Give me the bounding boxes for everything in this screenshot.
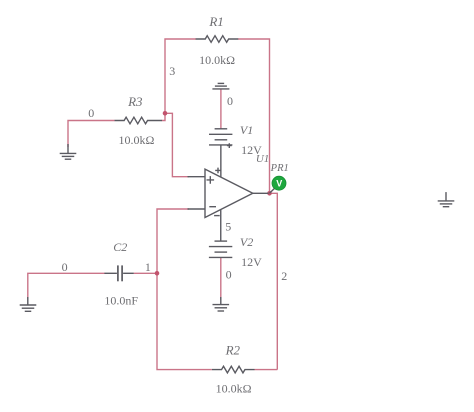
svg-text:R3: R3 xyxy=(127,94,143,109)
svg-text:12V: 12V xyxy=(241,255,262,269)
svg-text:0: 0 xyxy=(62,260,68,274)
svg-text:R1: R1 xyxy=(208,14,223,29)
svg-text:3: 3 xyxy=(169,64,175,78)
svg-text:1: 1 xyxy=(145,260,151,274)
svg-text:0: 0 xyxy=(226,267,232,281)
svg-text:10.0nF: 10.0nF xyxy=(104,293,138,307)
svg-text:V: V xyxy=(276,179,282,189)
svg-text:10.0kΩ: 10.0kΩ xyxy=(216,382,252,396)
svg-text:10.0kΩ: 10.0kΩ xyxy=(199,53,235,67)
svg-text:10.0kΩ: 10.0kΩ xyxy=(118,133,154,147)
svg-text:PR1: PR1 xyxy=(270,163,289,174)
svg-text:5: 5 xyxy=(225,220,231,234)
svg-text:V2: V2 xyxy=(240,235,253,249)
svg-text:2: 2 xyxy=(281,269,287,283)
svg-text:V1: V1 xyxy=(240,123,253,137)
svg-text:R2: R2 xyxy=(225,342,241,357)
svg-text:U1: U1 xyxy=(256,153,269,165)
svg-text:C2: C2 xyxy=(113,240,127,254)
svg-text:0: 0 xyxy=(88,106,94,120)
svg-text:0: 0 xyxy=(227,94,233,108)
